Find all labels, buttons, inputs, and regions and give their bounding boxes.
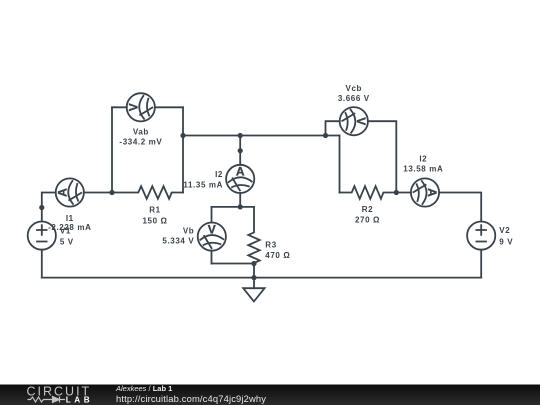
node I2 top terminal xyxy=(238,148,243,153)
label R2 xyxy=(355,205,380,225)
label R3 xyxy=(265,241,290,261)
voltage source V1 xyxy=(28,222,56,250)
resistor R1 xyxy=(112,186,183,199)
wire xyxy=(396,192,411,194)
svg-text:270 Ω: 270 Ω xyxy=(355,216,380,225)
wire Vcb right side xyxy=(368,121,396,192)
wire xyxy=(41,250,43,278)
svg-text:V2: V2 xyxy=(499,226,510,235)
wire loop bottom xyxy=(212,263,255,265)
label Vab xyxy=(119,128,162,147)
wire xyxy=(239,136,241,165)
wire xyxy=(42,193,56,222)
svg-text:I2: I2 xyxy=(215,170,223,179)
voltmeter Vb xyxy=(198,222,226,250)
svg-text:http://circuitlab.com/c4q74jc9: http://circuitlab.com/c4q74jc9j2why xyxy=(116,393,266,404)
svg-text:150 Ω: 150 Ω xyxy=(142,217,167,226)
node junction xyxy=(251,275,256,280)
label I2 right xyxy=(403,154,443,173)
svg-text:11.35 mA: 11.35 mA xyxy=(183,180,223,189)
svg-text:13.58 mA: 13.58 mA xyxy=(403,165,443,174)
node junction xyxy=(238,204,243,209)
svg-text:9 V: 9 V xyxy=(499,237,513,246)
node junction xyxy=(180,133,185,138)
label Vcb xyxy=(338,84,370,103)
voltage source V2 xyxy=(467,222,495,250)
node junction xyxy=(394,190,399,195)
wire xyxy=(239,193,241,207)
wire xyxy=(112,106,127,108)
svg-text:Alexkees / Lab 1: Alexkees / Lab 1 xyxy=(115,384,172,393)
label I2 middle xyxy=(183,170,223,189)
voltmeter Vcb xyxy=(340,107,368,135)
node junction xyxy=(323,133,328,138)
svg-text:3.666 V: 3.666 V xyxy=(338,94,370,103)
wire Vab loop left side xyxy=(111,107,113,192)
label I1 xyxy=(48,214,91,232)
node junction xyxy=(238,133,243,138)
wire bus down to R2 xyxy=(339,136,341,193)
svg-text:R3: R3 xyxy=(265,241,276,250)
svg-text:5.334 V: 5.334 V xyxy=(162,237,194,246)
svg-text:V1: V1 xyxy=(60,226,71,235)
wire xyxy=(84,192,112,194)
wire bus xyxy=(183,135,340,137)
wire bottom rail xyxy=(42,277,481,279)
svg-text:I1: I1 xyxy=(66,214,74,223)
wire xyxy=(211,251,213,264)
svg-text:Vcb: Vcb xyxy=(346,84,363,93)
svg-text:470 Ω: 470 Ω xyxy=(265,251,290,260)
label V2 xyxy=(499,226,513,246)
voltmeter Vab xyxy=(127,93,155,121)
ammeter I2 right xyxy=(411,178,439,206)
svg-text:R2: R2 xyxy=(362,205,373,214)
ground xyxy=(243,278,264,302)
label Vb xyxy=(162,227,194,246)
label V1 xyxy=(60,226,74,246)
label R1 xyxy=(142,206,167,226)
wire xyxy=(155,106,183,108)
svg-text:5 V: 5 V xyxy=(60,237,74,246)
node junction xyxy=(109,190,114,195)
svg-text:-334.2 mV: -334.2 mV xyxy=(119,137,162,146)
wire xyxy=(253,264,255,278)
node V1 top terminal xyxy=(39,205,44,210)
wire xyxy=(439,193,481,222)
ammeter I1 xyxy=(56,178,84,206)
svg-text:R1: R1 xyxy=(149,206,160,215)
wire loop top xyxy=(212,206,255,208)
wire xyxy=(211,207,213,223)
svg-text:I2: I2 xyxy=(419,154,427,163)
svg-text:LAB: LAB xyxy=(66,396,93,405)
resistor R3 xyxy=(248,207,259,264)
svg-text:Vb: Vb xyxy=(183,227,194,236)
ammeter I2 middle xyxy=(226,165,254,193)
svg-text:Vab: Vab xyxy=(133,128,149,137)
wire xyxy=(480,250,482,278)
wire Vcb left tap xyxy=(326,121,340,135)
logo CIRCUIT LAB xyxy=(27,384,94,404)
wire Vab loop right side xyxy=(182,107,184,192)
footer bar xyxy=(0,385,540,405)
resistor R2 xyxy=(340,186,397,199)
node junction xyxy=(251,261,256,266)
